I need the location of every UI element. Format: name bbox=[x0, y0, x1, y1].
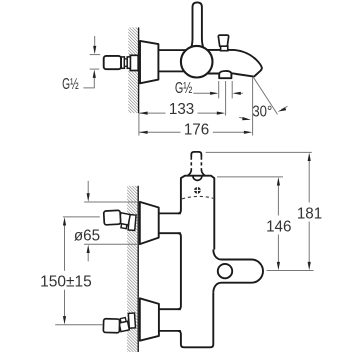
150+-15 top extension line bbox=[63, 216, 100, 218]
dimension 150+-15 line bbox=[64, 224, 66, 271]
lever flare right bbox=[201, 170, 204, 176]
svg-text:150±15: 150±15 bbox=[40, 273, 92, 290]
dimension 146 line bbox=[277, 184, 279, 216]
133 right arrow bbox=[217, 112, 225, 115]
G1/2 bottom arrow with leader bbox=[83, 78, 94, 88]
150+-15 bottom arrow bbox=[63, 316, 66, 324]
hand shower holder bbox=[213, 250, 263, 293]
spout tip extension line bbox=[252, 78, 254, 136]
top connector union bbox=[118, 213, 130, 229]
inlet wall block (top view) bbox=[130, 55, 138, 70]
133 left arrow bbox=[139, 112, 147, 115]
extension line cap top bbox=[217, 176, 283, 178]
o65 top extension line bbox=[84, 201, 138, 203]
bottom escutcheon (front view) bbox=[140, 298, 159, 340]
wall hatching (front view) bbox=[127, 186, 138, 352]
extension line holder centre bbox=[267, 270, 314, 272]
bottom port tube lines bbox=[159, 308, 181, 310]
176 right arrow bbox=[244, 131, 252, 134]
valve body circle bbox=[181, 46, 213, 78]
bottom connector stub bbox=[103, 319, 119, 333]
o65 bottom extension line bbox=[84, 243, 138, 245]
screw head bbox=[194, 187, 201, 194]
G1/2 top arrow bbox=[94, 36, 96, 47]
bottom connector union bbox=[118, 317, 129, 331]
o65 bottom arrow bbox=[87, 253, 89, 262]
hand-shower outlet arc (through body) bbox=[219, 71, 231, 73]
inlet pipe stub (top view) bbox=[104, 56, 121, 69]
diverter knob bbox=[218, 35, 228, 46]
outlet right extension line bbox=[231, 81, 233, 98]
svg-text:133: 133 bbox=[169, 101, 194, 118]
svg-text:30°: 30° bbox=[252, 104, 272, 121]
dimension 181 line bbox=[308, 160, 310, 203]
svg-text:G½: G½ bbox=[175, 79, 192, 96]
outlet centre extension line bbox=[225, 81, 227, 116]
cap notch semicircle bbox=[193, 176, 202, 181]
escutcheon cone (top view) bbox=[140, 41, 158, 83]
body column (front view) bbox=[178, 176, 214, 250]
svg-text:ø65: ø65 bbox=[74, 227, 100, 244]
G1/2 bottom tick line bbox=[90, 68, 100, 70]
top port tube lines bbox=[159, 212, 181, 214]
outlet left extension line bbox=[218, 81, 220, 98]
181 bottom arrow bbox=[308, 262, 311, 270]
G1/2 outlet dim right arrow bbox=[240, 92, 243, 94]
water stream 30 deg line bbox=[253, 77, 277, 115]
wall face line (front view) bbox=[137, 186, 139, 352]
176 left arrow bbox=[139, 131, 147, 134]
dashed cap joint arc bbox=[182, 196, 213, 199]
wall hatching (top view) bbox=[128, 27, 138, 113]
svg-text:181: 181 bbox=[297, 205, 322, 222]
150+-15 top arrow bbox=[63, 217, 66, 225]
wire: wall-face extension line down to 176 dim bbox=[138, 113, 140, 136]
extension line lever top bbox=[206, 151, 312, 153]
svg-text:G½: G½ bbox=[62, 75, 79, 93]
dimension 133 line bbox=[139, 112, 165, 114]
top connector wall piece bbox=[128, 215, 136, 231]
lever stub (front view, dashed sides) bbox=[191, 152, 201, 157]
diverter knob base bbox=[221, 46, 228, 51]
181 top arrow bbox=[308, 153, 311, 161]
146 bottom arrow bbox=[277, 262, 280, 270]
inlet union flanges (top view) bbox=[121, 57, 124, 68]
o65 top arrow bbox=[87, 181, 89, 194]
wall face line (top view) bbox=[138, 27, 140, 113]
holder hole bbox=[218, 264, 232, 278]
angle leader arrow to stream bbox=[281, 106, 287, 109]
lever flare left bbox=[188, 170, 191, 176]
dimension 176 line bbox=[139, 131, 180, 133]
body column lower-left segment bbox=[178, 233, 181, 309]
angle leader arrow to vertical bbox=[239, 116, 243, 119]
body bottom with corners bbox=[178, 293, 213, 348]
svg-text:176: 176 bbox=[184, 121, 209, 138]
lever handle (top view) bbox=[191, 2, 204, 48]
top escutcheon (front view) bbox=[140, 202, 159, 244]
146 top arrow bbox=[277, 177, 280, 185]
bottom connector wall piece bbox=[128, 313, 135, 328]
G1/2 top tick line bbox=[90, 54, 101, 56]
150+-15 bottom extension line bbox=[55, 324, 103, 326]
svg-text:146: 146 bbox=[266, 218, 291, 235]
top connector stub bbox=[104, 210, 121, 225]
spout body silhouette bbox=[196, 50, 262, 78]
supply pipe between escutcheon and valve body bbox=[157, 50, 189, 71]
G1/2 outlet dim left arrow bbox=[193, 92, 211, 94]
